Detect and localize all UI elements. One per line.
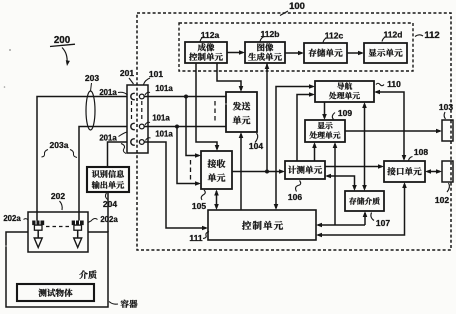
wire 111 top to 104 bottom (arrow up) bbox=[239, 132, 244, 210]
label 112c bbox=[323, 31, 343, 43]
box 106 measuring unit bbox=[285, 161, 325, 179]
label 102 with leader bbox=[435, 183, 450, 205]
svg-text:201a: 201a bbox=[99, 134, 117, 143]
wire 106 right to 107 top (arrows both ends) bbox=[325, 174, 357, 191]
label 112b bbox=[260, 29, 279, 42]
wire 109 right to 103 (arrow) bbox=[345, 129, 442, 134]
wire row1: pin 101a to 104 left, junction dot bbox=[144, 95, 226, 99]
arrow from 200 (curved) bbox=[62, 48, 70, 67]
label 110 with squiggle bbox=[376, 79, 401, 89]
svg-text:计测单元: 计测单元 bbox=[288, 164, 323, 176]
dashes between pins right half bbox=[141, 101, 143, 122]
box 105 receiving unit bbox=[201, 151, 232, 189]
svg-text:介质: 介质 bbox=[79, 268, 97, 281]
svg-text:202a: 202a bbox=[3, 214, 21, 223]
svg-text:201: 201 bbox=[120, 68, 134, 78]
wire row2: pin 101a to 104 left, junction dot bbox=[144, 125, 226, 129]
wire row3: pin 101a right then down to 111 left (arrow) bbox=[144, 142, 208, 230]
wire 201a row3 left down to 204 bbox=[108, 142, 128, 167]
label 101 with leader bbox=[144, 69, 164, 85]
label 101a row1 with tilde bbox=[145, 84, 173, 95]
label 203a with two wavy leaders bbox=[42, 140, 78, 158]
svg-text:203a: 203a bbox=[50, 140, 69, 150]
label 112d bbox=[382, 30, 402, 42]
wire 111 right to 109 bottom and 107 bottom (branched, arrows) bbox=[316, 142, 367, 227]
svg-text:处理单元: 处理单元 bbox=[329, 91, 360, 102]
wire row2 branch down into 105 left (arrow) bbox=[177, 127, 201, 186]
label 111 with leader bbox=[189, 232, 209, 244]
svg-text:存储介质: 存储介质 bbox=[349, 196, 380, 207]
box 103 (connector/terminal) bbox=[442, 120, 453, 141]
connector pin 101a row1 (plug circle) bbox=[139, 94, 144, 99]
probes 202a with hollow arrows bbox=[32, 221, 83, 248]
svg-text:101a: 101a bbox=[152, 114, 170, 123]
svg-text:单元: 单元 bbox=[207, 171, 225, 184]
label 202a left with tilde bbox=[3, 214, 28, 223]
dashed link between probes bbox=[46, 226, 70, 228]
arrow 112c to 112d bbox=[347, 51, 364, 56]
wire 110 bottom to 107 top (double arrow) bbox=[362, 102, 367, 191]
svg-text:接口单元: 接口单元 bbox=[387, 166, 422, 178]
svg-text:109: 109 bbox=[338, 108, 352, 118]
svg-text:110: 110 bbox=[387, 79, 401, 89]
label 200 underlined bbox=[50, 35, 75, 47]
svg-text:104: 104 bbox=[249, 141, 263, 151]
wire 108 bottom to 111 right (arrows both ends) bbox=[316, 182, 407, 237]
container (open-top around probe box) bbox=[6, 232, 108, 307]
box 112d display unit bbox=[364, 43, 407, 63]
svg-text:111: 111 bbox=[189, 233, 203, 243]
svg-text:控制单元: 控制单元 bbox=[242, 218, 284, 232]
svg-text:101a: 101a bbox=[155, 130, 173, 139]
connector housing 201/101 bbox=[127, 85, 148, 153]
wire 110 left to 111 top (arrows both ends) bbox=[274, 84, 315, 210]
arrow 112b to 112c bbox=[285, 51, 304, 56]
box 112c storage unit bbox=[304, 43, 347, 63]
wire 105 right to 106 left (arrow), junction dot bbox=[232, 169, 285, 174]
svg-text:生成单元: 生成单元 bbox=[248, 51, 283, 63]
svg-text:106: 106 bbox=[288, 192, 302, 202]
box 109 display processing unit bbox=[305, 120, 345, 142]
wire 204 bottom to container bbox=[107, 192, 109, 232]
wire 112a-right step down to 104 top (arrow) bbox=[217, 63, 243, 92]
box 102 (connector/terminal) bbox=[442, 161, 453, 182]
wire 106 right to 108 left (arrow) bbox=[325, 164, 384, 169]
svg-text:203: 203 bbox=[85, 73, 99, 83]
wire 201a row1 left to probe 1 bbox=[37, 97, 127, 221]
dashed enclosure box 100 (apparatus) bbox=[137, 13, 451, 250]
svg-text:容器: 容器 bbox=[120, 298, 138, 310]
vertical dashes (multi-line) left of 104 bbox=[214, 101, 216, 123]
svg-text:201a: 201a bbox=[99, 88, 117, 97]
connector pin 201a row1 (socket C) bbox=[131, 93, 135, 99]
svg-text:接收: 接收 bbox=[207, 157, 225, 170]
wire row1 branch down into 105 left (arrow) bbox=[186, 97, 201, 158]
svg-text:202a: 202a bbox=[100, 215, 118, 224]
label 101a row2 with tilde bbox=[145, 114, 170, 126]
label 107 with leader bbox=[371, 213, 390, 229]
svg-text:204: 204 bbox=[103, 199, 117, 209]
label 105 with wavy leader bbox=[192, 190, 206, 211]
svg-text:112d: 112d bbox=[384, 30, 403, 40]
vertical dashes (multi-line) left of 105 bbox=[190, 160, 192, 181]
svg-text:202: 202 bbox=[51, 191, 65, 201]
svg-text:108: 108 bbox=[414, 147, 428, 157]
probe housing box 202 bbox=[28, 212, 88, 252]
svg-text:112: 112 bbox=[424, 30, 439, 41]
label 容器 with wavy leader bbox=[109, 298, 138, 310]
connector pin 101a row3 (plug circle) bbox=[139, 140, 144, 145]
label 101a row3 with tilde bbox=[146, 130, 174, 141]
label 202a right with tilde bbox=[88, 215, 118, 224]
box 112b image generation unit bbox=[245, 42, 285, 64]
wire 106 top to 109 bottom (arrow) bbox=[312, 142, 317, 161]
label 106 with leader bbox=[288, 181, 302, 203]
label 202 with leader bbox=[51, 191, 65, 210]
svg-text:101: 101 bbox=[149, 69, 163, 79]
dashed enclosure box 112 (imaging group) bbox=[179, 23, 413, 71]
svg-text:单元: 单元 bbox=[232, 114, 250, 127]
box 111 control unit bbox=[208, 210, 316, 240]
box 108 interface unit bbox=[384, 161, 425, 182]
wire 110 bottom to 109 top (arrow) bbox=[322, 102, 327, 120]
svg-text:显示单元: 显示单元 bbox=[368, 47, 403, 59]
svg-text:103: 103 bbox=[439, 102, 453, 112]
box 107 storage medium bbox=[345, 191, 384, 211]
svg-text:102: 102 bbox=[435, 195, 449, 205]
label 201a row1 with leader bbox=[99, 88, 127, 97]
box 104 transmitting unit bbox=[226, 92, 257, 132]
connector pin 101a row2 (plug circle) bbox=[139, 124, 144, 129]
label 203 with leader bbox=[85, 73, 99, 91]
svg-text:105: 105 bbox=[192, 201, 206, 211]
label 201 with leader bbox=[120, 68, 134, 84]
connector pin 201a row3 (socket C) bbox=[131, 139, 135, 145]
label 201a row3 with leaders bbox=[99, 132, 127, 154]
connector pin 201a row2 (socket C) bbox=[131, 123, 135, 129]
svg-text:107: 107 bbox=[376, 218, 390, 228]
svg-text:100: 100 bbox=[289, 1, 305, 12]
cable bundle ellipse 203 bbox=[86, 91, 95, 130]
svg-text:存储单元: 存储单元 bbox=[308, 47, 343, 59]
svg-text:112a: 112a bbox=[201, 30, 220, 40]
label 103 with leader bbox=[439, 102, 453, 119]
label 109 with leader bbox=[332, 108, 352, 120]
wire 112a-left down to 105 top (arrow) bbox=[196, 63, 219, 151]
wire 108 right to 102 (double arrow) bbox=[425, 169, 442, 174]
label 100 with leader bbox=[280, 1, 305, 16]
label medium 介质 bbox=[79, 268, 97, 281]
dashes between pins left half bbox=[131, 101, 133, 122]
svg-text:101a: 101a bbox=[155, 84, 173, 93]
label 112a bbox=[200, 30, 219, 42]
svg-text:识别信息: 识别信息 bbox=[92, 169, 125, 180]
wire 112b bottom up-arrow from junction bbox=[265, 63, 270, 172]
svg-text:测试物体: 测试物体 bbox=[38, 287, 73, 299]
label 204 with leader bbox=[103, 193, 117, 209]
svg-text:发送: 发送 bbox=[232, 100, 250, 113]
box 110 navigation processing unit bbox=[315, 81, 374, 102]
wire 110 right to 108 top (arrows both ends) bbox=[374, 90, 406, 161]
wire 201a row2 left to probe 2 bbox=[79, 127, 127, 221]
svg-text:控制单元: 控制单元 bbox=[189, 51, 224, 63]
box 112a imaging control unit bbox=[185, 42, 227, 64]
svg-text:112c: 112c bbox=[325, 31, 344, 41]
box test object 测试物体 bbox=[17, 284, 94, 301]
arrow 112a to 112b bbox=[227, 50, 245, 55]
scan speckles bbox=[4, 49, 227, 247]
wire 105 bottom to 111 top (double arrow) bbox=[214, 190, 219, 211]
label 108 with leader bbox=[409, 147, 429, 162]
box 204 identification info output unit bbox=[87, 167, 129, 192]
label 104 with leader bbox=[249, 133, 263, 151]
label 112 with squiggle leader bbox=[415, 30, 440, 41]
wire 106 top to 110 left (arrow) bbox=[297, 92, 315, 161]
svg-text:输出单元: 输出单元 bbox=[92, 180, 126, 191]
svg-text:处理单元: 处理单元 bbox=[309, 130, 340, 141]
